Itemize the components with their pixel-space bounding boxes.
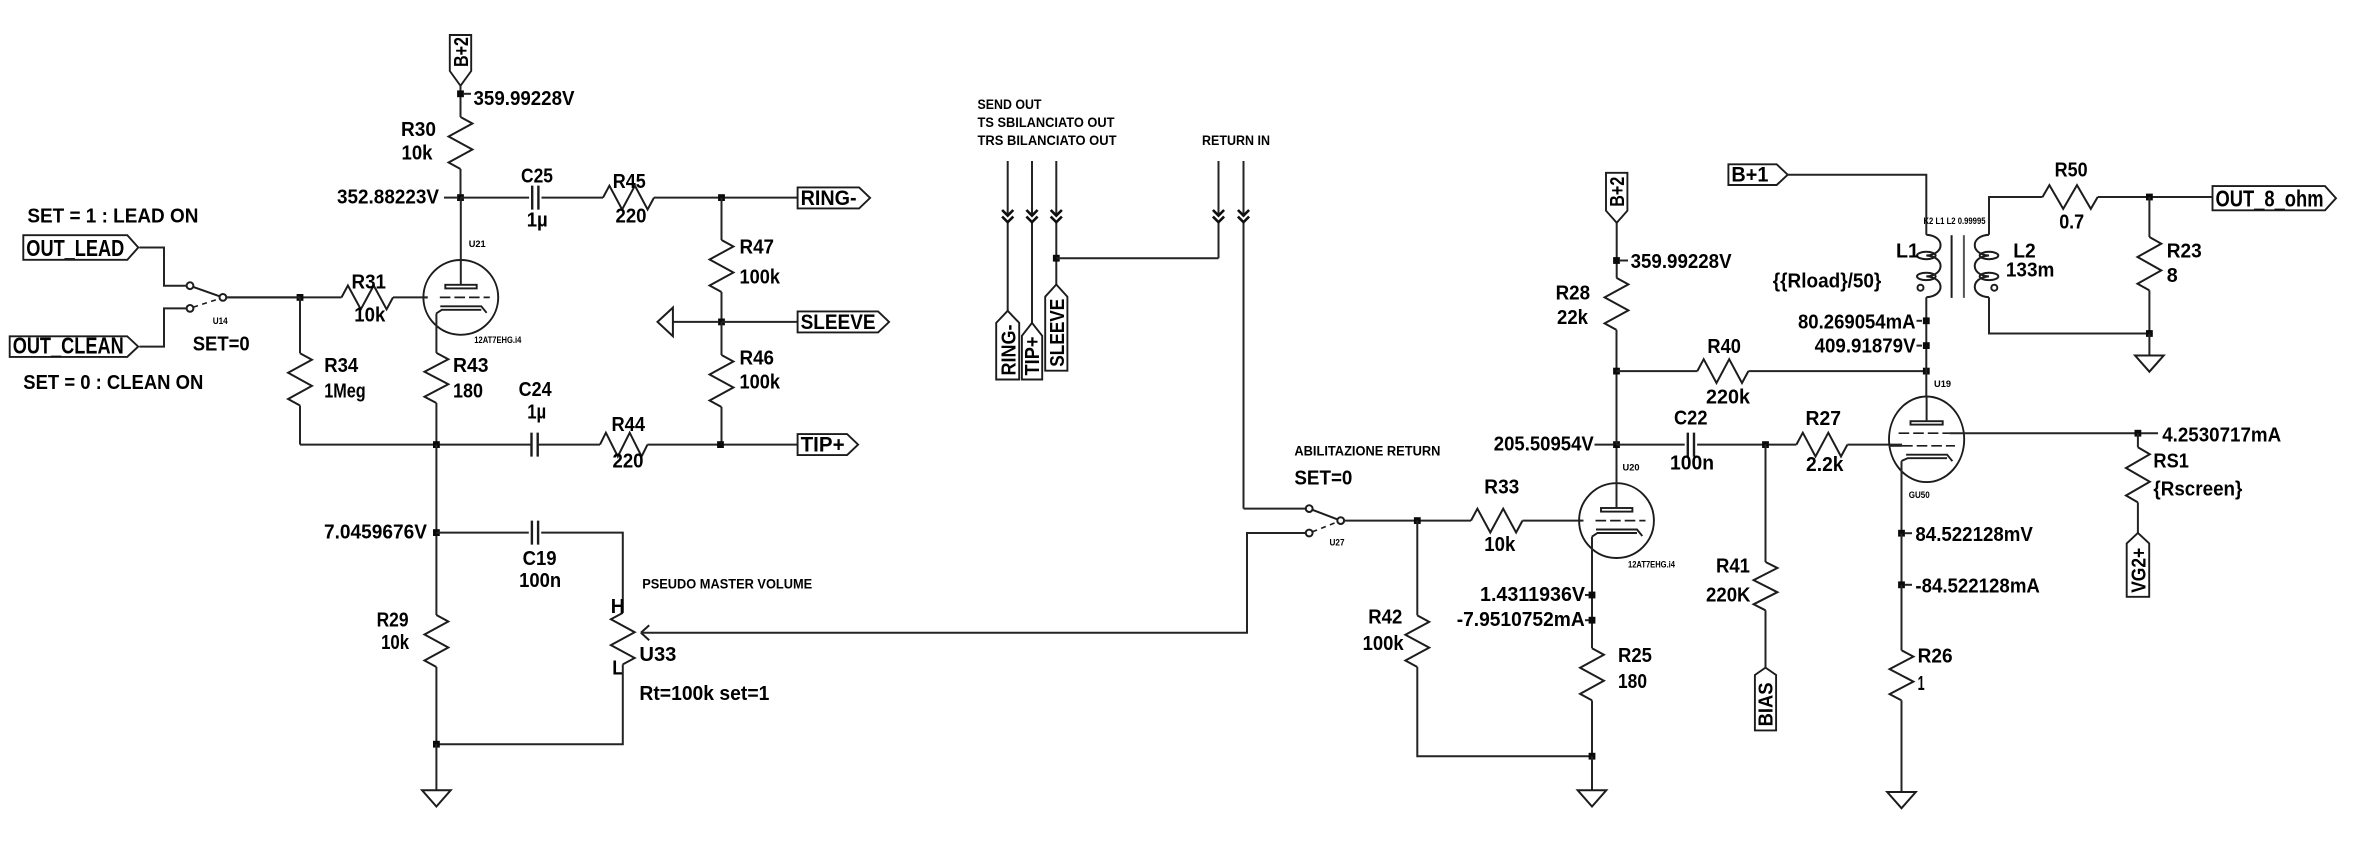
wire (screen to RS1)	[1949, 432, 2138, 434]
node 84.522128mV junction	[1898, 530, 1905, 537]
resistor R33	[1471, 476, 1523, 556]
svg-text:TIP+: TIP+	[801, 433, 845, 457]
switch U27	[1294, 467, 1352, 548]
svg-text:L: L	[612, 657, 623, 679]
svg-text:100k: 100k	[740, 371, 781, 393]
resistor R29	[377, 609, 449, 667]
node RING- junction	[718, 194, 725, 201]
svg-text:C22: C22	[1674, 408, 1708, 430]
node C22 junction	[1613, 441, 1620, 448]
wire	[435, 314, 437, 353]
svg-text:R47: R47	[740, 236, 775, 258]
svg-text:TRS BILANCIATO OUT: TRS BILANCIATO OUT	[978, 133, 1118, 148]
svg-text:OUT_8_ohm: OUT_8_ohm	[2216, 185, 2324, 211]
svg-text:R26: R26	[1918, 646, 1953, 668]
resistor R41	[1706, 555, 1777, 610]
svg-text:SLEEVE: SLEEVE	[1047, 299, 1069, 367]
voltage label 352.88223V	[337, 187, 457, 209]
wire	[1925, 371, 1927, 396]
svg-text:220K: 220K	[1706, 584, 1751, 606]
potentiometer U33	[611, 596, 770, 705]
resistor R25	[1580, 645, 1652, 700]
svg-text:12AT7EHG.i4: 12AT7EHG.i4	[474, 335, 522, 346]
svg-text:{{Rload}/50}: {{Rload}/50}	[1773, 271, 1882, 293]
svg-text:84.522128mV: 84.522128mV	[1915, 524, 2033, 546]
wire	[1989, 197, 2043, 235]
value label {{Rload}/50}	[1773, 271, 1882, 293]
svg-text:SLEEVE: SLEEVE	[801, 310, 876, 334]
wire (return line 1)	[1218, 161, 1220, 258]
svg-text:409.91879V: 409.91879V	[1815, 335, 1917, 357]
note ABILITAZIONE RETURN	[1294, 443, 1440, 458]
svg-text:R34: R34	[324, 355, 359, 377]
svg-text:U21: U21	[469, 239, 487, 250]
svg-text:R41: R41	[1716, 555, 1750, 577]
svg-text:R40: R40	[1707, 336, 1741, 358]
arrow	[1238, 210, 1249, 222]
wire	[1591, 537, 1593, 649]
ground (rotated left)	[658, 308, 719, 337]
resistor R26	[1890, 646, 1953, 701]
svg-text:220: 220	[613, 451, 644, 473]
transformer core	[1952, 235, 1964, 298]
svg-text:R29: R29	[377, 609, 409, 631]
svg-text:359.99228V: 359.99228V	[474, 88, 576, 110]
voltage label 84.522128mV	[1905, 524, 2034, 546]
svg-text:R25: R25	[1618, 645, 1652, 667]
wire	[2137, 502, 2139, 533]
capacitor C19	[519, 521, 561, 592]
node ground junction	[433, 741, 440, 748]
svg-text:352.88223V: 352.88223V	[337, 187, 440, 209]
svg-text:OUT_CLEAN: OUT_CLEAN	[13, 333, 124, 359]
svg-text:1Meg: 1Meg	[324, 381, 366, 403]
svg-text:10k: 10k	[381, 632, 410, 654]
arrow	[1026, 210, 1037, 222]
coupling statement K2 L1 L2 0.99995	[1924, 216, 1987, 227]
svg-text:R44: R44	[612, 414, 646, 436]
node R33 junction	[1414, 517, 1421, 524]
wire	[1901, 533, 1903, 585]
wire	[226, 296, 300, 298]
wire	[139, 308, 186, 346]
node 359.99228V junction	[457, 90, 464, 97]
note TRS BILANCIATO OUT	[978, 133, 1118, 148]
wire	[460, 169, 462, 198]
output flag RING-	[798, 186, 871, 210]
power flag B+2 (top left)	[450, 35, 473, 86]
svg-text:180: 180	[453, 381, 483, 403]
wire	[435, 403, 437, 445]
ground	[1578, 756, 1607, 806]
resistor RS1	[2126, 447, 2243, 502]
tube triode U21	[423, 239, 521, 346]
node 1.4311936V junction	[1589, 592, 1596, 599]
node ground junction	[1589, 753, 1596, 760]
svg-text:R46: R46	[740, 347, 775, 369]
svg-text:R30: R30	[401, 119, 436, 141]
voltage label 359.99228V (right)	[1620, 251, 1732, 273]
svg-text:10k: 10k	[354, 305, 386, 327]
svg-text:R23: R23	[2167, 241, 2202, 263]
wire	[1765, 610, 1767, 667]
node R40 left junction	[1613, 368, 1620, 375]
voltage label 409.91879V	[1815, 335, 1922, 357]
resistor R47	[710, 236, 781, 292]
resistor R30	[401, 117, 472, 169]
wire	[1697, 444, 1796, 446]
wire	[435, 445, 437, 615]
svg-text:R33: R33	[1484, 476, 1519, 498]
svg-text:10k: 10k	[1484, 534, 1516, 556]
arrow	[1051, 210, 1062, 222]
node C24 junction	[433, 441, 440, 448]
current label 80.269054mA	[1798, 312, 1922, 334]
svg-text:U20: U20	[1623, 463, 1640, 474]
wire	[436, 664, 622, 744]
note TS SBILANCIATO OUT	[978, 115, 1116, 130]
svg-text:C24: C24	[519, 379, 553, 401]
node TIP+ junction	[717, 441, 724, 448]
resistor R45	[603, 171, 654, 227]
svg-text:Rt=100k set=1: Rt=100k set=1	[639, 683, 769, 705]
node SLEEVE junction	[718, 319, 725, 326]
svg-text:ABILITAZIONE RETURN: ABILITAZIONE RETURN	[1294, 443, 1440, 458]
switch U14	[187, 282, 250, 355]
wire	[722, 321, 798, 323]
svg-text:180: 180	[1618, 671, 1647, 693]
wire	[721, 198, 723, 240]
ground	[2135, 334, 2164, 372]
wire	[1847, 444, 1902, 446]
capacitor C25	[521, 166, 553, 232]
node OUT junction	[2146, 194, 2153, 201]
output flag OUT_8_ohm	[2213, 185, 2337, 211]
svg-text:RING-: RING-	[999, 325, 1021, 376]
wire (return line 2)	[1243, 161, 1245, 509]
wire	[461, 197, 530, 199]
wire	[435, 667, 437, 744]
resistor R46	[710, 347, 781, 407]
tube triode U20	[1579, 463, 1675, 571]
capacitor C24	[519, 379, 553, 457]
svg-text:100n: 100n	[519, 570, 561, 592]
wire	[1901, 461, 1903, 533]
node R41 junction	[1762, 441, 1769, 448]
wire	[1617, 444, 1685, 446]
wire	[299, 297, 301, 353]
svg-text:RETURN IN: RETURN IN	[1202, 133, 1270, 148]
wire	[1617, 370, 1698, 372]
arrow	[1002, 210, 1013, 222]
output flag TIP+	[798, 433, 859, 457]
flag VG2+ (vertical)	[2127, 533, 2151, 597]
wire	[1989, 297, 2149, 333]
flag RING- (vertical)	[996, 311, 1020, 380]
wire	[1616, 330, 1618, 445]
svg-text:SEND OUT: SEND OUT	[978, 97, 1043, 112]
wire	[460, 86, 462, 117]
note SET = 1 : LEAD ON	[27, 205, 198, 227]
note SET = 0 : CLEAN ON	[23, 372, 203, 394]
node 7.0459676V junction	[433, 529, 440, 536]
ground	[422, 744, 451, 806]
svg-text:R42: R42	[1368, 606, 1402, 628]
wire	[1748, 370, 1926, 372]
svg-text:359.99228V: 359.99228V	[1631, 251, 1733, 273]
svg-text:1.4311936V: 1.4311936V	[1480, 584, 1586, 606]
node R31 junction	[297, 294, 304, 301]
ground	[1887, 790, 1916, 808]
svg-text:22k: 22k	[1557, 307, 1589, 329]
wire	[299, 406, 301, 445]
wire	[2148, 197, 2150, 237]
svg-text:R50: R50	[2055, 160, 2088, 182]
svg-text:4.2530717mA: 4.2530717mA	[2162, 424, 2281, 446]
svg-text:-7.9510752mA: -7.9510752mA	[1457, 609, 1585, 631]
node 359.99228V junction (right)	[1613, 257, 1620, 264]
resistor R34	[288, 353, 366, 405]
current label 4.2530717mA	[2141, 424, 2281, 446]
svg-text:C25: C25	[521, 166, 553, 188]
svg-text:R28: R28	[1556, 282, 1591, 304]
svg-text:RS1: RS1	[2153, 450, 2189, 472]
wire	[1901, 585, 1903, 651]
svg-text:80.269054mA: 80.269054mA	[1798, 312, 1916, 334]
wire	[436, 532, 528, 534]
svg-text:R45: R45	[613, 171, 646, 193]
svg-text:BIAS: BIAS	[1756, 682, 1778, 726]
svg-text:RING-: RING-	[801, 186, 857, 210]
wire	[721, 322, 723, 355]
wire	[1244, 508, 1306, 510]
svg-text:SET = 1 : LEAD ON: SET = 1 : LEAD ON	[27, 205, 198, 227]
wire (send line 3)	[1055, 161, 1057, 285]
voltage label 205.50954V	[1494, 434, 1613, 456]
wire	[300, 444, 600, 446]
resistor R43	[425, 353, 489, 403]
node 409.91879V junction	[1923, 342, 1930, 349]
current label -84.522128mA	[1905, 575, 2040, 597]
svg-text:R31: R31	[352, 272, 387, 294]
svg-text:133m: 133m	[2006, 260, 2054, 282]
resistor R28	[1556, 278, 1629, 330]
svg-text:U27: U27	[1330, 538, 1345, 549]
wire	[1925, 297, 1927, 371]
svg-text:PSEUDO MASTER VOLUME: PSEUDO MASTER VOLUME	[642, 576, 812, 591]
svg-text:{Rscreen}: {Rscreen}	[2153, 478, 2242, 500]
svg-text:VG2+: VG2+	[2129, 548, 2151, 593]
transformer secondary L2	[1975, 235, 2055, 298]
svg-text:K2 L1 L2 0.99995: K2 L1 L2 0.99995	[1924, 216, 1987, 227]
wire	[460, 198, 462, 261]
svg-text:B+2: B+2	[451, 37, 473, 67]
svg-text:100k: 100k	[740, 266, 781, 288]
svg-text:2.2k: 2.2k	[1806, 454, 1844, 476]
node 80.269054mA junction	[1923, 317, 1930, 324]
flag TIP+ (vertical)	[1022, 323, 1044, 380]
wire	[541, 533, 623, 613]
svg-text:U14: U14	[213, 316, 229, 327]
svg-text:OUT_LEAD: OUT_LEAD	[26, 235, 124, 261]
svg-text:8: 8	[2167, 265, 2178, 287]
note RETURN IN	[1202, 133, 1270, 148]
svg-text:205.50954V: 205.50954V	[1494, 434, 1595, 456]
resistor R42	[1363, 606, 1430, 667]
node -7.9510752mA junction	[1589, 617, 1596, 624]
current label -7.9510752mA	[1457, 609, 1589, 631]
wire	[1523, 520, 1582, 522]
wire	[1344, 520, 1471, 522]
svg-text:12AT7EHG.i4: 12AT7EHG.i4	[1628, 560, 1676, 571]
resistor R44	[600, 414, 648, 473]
svg-text:R43: R43	[453, 355, 489, 377]
voltage label 1.4311936V	[1480, 584, 1589, 606]
svg-text:TS SBILANCIATO OUT: TS SBILANCIATO OUT	[978, 115, 1116, 130]
svg-text:1: 1	[1918, 673, 1925, 695]
resistor R50	[2043, 160, 2098, 234]
wire (send line 2)	[1031, 161, 1033, 323]
node SLEEVE send junction	[1053, 255, 1060, 262]
svg-text:U19: U19	[1934, 379, 1951, 390]
wire	[648, 407, 798, 445]
flag OUT_LEAD	[23, 235, 138, 261]
note SEND OUT	[978, 97, 1043, 112]
svg-text:U33: U33	[639, 644, 676, 666]
wire	[1788, 175, 1927, 235]
svg-text:1µ: 1µ	[527, 209, 548, 231]
svg-text:10k: 10k	[402, 143, 434, 165]
wire	[1417, 667, 1592, 756]
wire	[1616, 223, 1618, 278]
arrow	[1213, 210, 1224, 222]
voltage label 7.0459676V	[324, 521, 428, 543]
node 352.88223V junction	[457, 194, 464, 201]
wire	[2098, 196, 2213, 198]
wire	[1765, 445, 1767, 562]
wire	[2148, 290, 2150, 333]
svg-text:SET=0: SET=0	[1294, 467, 1352, 489]
resistor R31	[342, 272, 394, 327]
wire	[1616, 445, 1618, 484]
svg-text:220k: 220k	[1706, 386, 1751, 408]
wire	[1056, 257, 1218, 259]
flag OUT_CLEAN	[10, 333, 139, 359]
note PSEUDO MASTER VOLUME	[642, 576, 812, 591]
power flag B+1	[1728, 163, 1787, 187]
wire	[1591, 700, 1593, 756]
svg-text:R27: R27	[1806, 408, 1842, 430]
flag BIAS (vertical)	[1755, 668, 1778, 731]
svg-text:1µ: 1µ	[527, 402, 546, 424]
svg-text:H: H	[611, 596, 625, 618]
wire	[654, 197, 798, 199]
node R23 ground junction	[2146, 330, 2153, 337]
capacitor C22	[1670, 408, 1714, 475]
svg-text:100n: 100n	[1670, 453, 1714, 475]
svg-text:C19: C19	[523, 548, 557, 570]
flag SLEEVE (vertical)	[1045, 285, 1069, 371]
svg-text:B+1: B+1	[1731, 163, 1768, 187]
svg-text:SET = 0 : CLEAN ON: SET = 0 : CLEAN ON	[23, 372, 203, 394]
svg-text:7.0459676V: 7.0459676V	[324, 521, 428, 543]
svg-text:TIP+: TIP+	[1022, 337, 1044, 376]
svg-text:SET=0: SET=0	[193, 334, 250, 356]
output flag SLEEVE	[798, 310, 890, 334]
svg-text:L1: L1	[1896, 241, 1919, 263]
resistor R40	[1697, 336, 1751, 409]
wire	[139, 248, 186, 286]
wire	[542, 197, 604, 199]
node RS1 junction	[2135, 430, 2142, 437]
svg-text:0.7: 0.7	[2059, 211, 2084, 233]
wire	[226, 296, 341, 298]
wire	[721, 292, 723, 322]
power flag B+2 (right)	[1606, 173, 1629, 223]
node R40 right junction	[1923, 368, 1930, 375]
wire	[393, 296, 428, 298]
svg-text:B+2: B+2	[1607, 177, 1629, 207]
tube pentode U19 GU50	[1889, 379, 1964, 501]
svg-text:-84.522128mA: -84.522128mA	[1915, 575, 2040, 597]
voltage label 359.99228V	[464, 88, 575, 110]
wire (send line 1)	[1007, 161, 1009, 311]
svg-text:100k: 100k	[1363, 633, 1405, 655]
svg-text:GU50: GU50	[1909, 490, 1930, 501]
wire	[1901, 700, 1903, 792]
wire (pot wiper to U27 switch)	[641, 533, 1306, 633]
wire	[1416, 521, 1418, 616]
svg-text:220: 220	[616, 205, 647, 227]
transformer primary L1	[1896, 235, 1941, 298]
node -84.522128mA junction	[1898, 581, 1905, 588]
wire	[2137, 433, 2139, 447]
resistor R23	[2138, 237, 2202, 290]
resistor R27	[1796, 408, 1847, 476]
